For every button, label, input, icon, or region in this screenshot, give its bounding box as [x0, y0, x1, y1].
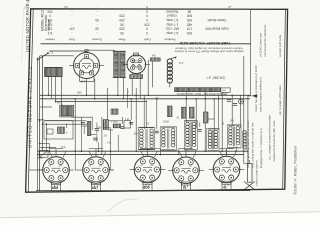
wire bus B+	[40, 98, 250, 100]
capacitor C8	[227, 100, 237, 106]
svg-text:0: 0	[49, 14, 51, 18]
capacitor C5b	[93, 138, 97, 140]
svg-text:.5 M.: .5 M.	[107, 143, 112, 145]
tube V1 inner circle	[79, 58, 94, 73]
wire left vertical 1	[39, 56, 41, 191]
svg-text:-: -	[71, 22, 72, 26]
svg-text:6.3: 6.3	[48, 22, 53, 26]
junction dots	[39, 95, 245, 153]
wire antenna taps	[49, 77, 62, 106]
capacitor C14	[120, 127, 124, 129]
wire control box feed	[37, 119, 44, 121]
resistor R8	[167, 106, 172, 117]
svg-text:250: 250	[144, 22, 150, 26]
tube V5 6D6	[130, 156, 166, 186]
svg-text:247: 247	[69, 27, 75, 31]
svg-text:0: 0	[146, 9, 148, 13]
svg-text:-: -	[71, 9, 72, 13]
svg-text:75: 75	[183, 186, 187, 190]
svg-text:OZ4: OZ4	[132, 60, 137, 63]
svg-text:-: -	[96, 22, 97, 26]
voltage divider R2	[175, 88, 221, 92]
svg-text:Cath.: Cath.	[143, 38, 151, 42]
svg-text:250: 250	[119, 27, 125, 31]
svg-text:6D6: 6D6	[52, 186, 58, 190]
svg-text:-: -	[96, 9, 97, 13]
svg-text:UNITED MOTOR PAGE 4-7: UNITED MOTOR PAGE 4-7	[25, 0, 30, 52]
page border frame	[26, 9, 288, 192]
table top sparse row (upside-down)	[64, 5, 232, 9]
svg-text:6.3: 6.3	[48, 18, 53, 22]
svg-text:Output: Output	[167, 14, 177, 18]
svg-text:6A7: 6A7	[92, 186, 98, 190]
svg-text:250: 250	[119, 18, 125, 22]
svg-text:-: -	[71, 14, 72, 18]
extra junction dots	[39, 95, 237, 156]
wire seg y158 a	[37, 157, 42, 159]
svg-text:-: -	[96, 31, 97, 35]
svg-text:0: 0	[146, 27, 148, 31]
IF transformer T3	[161, 127, 175, 149]
resistor R10	[189, 107, 194, 118]
svg-text:Position: Position	[164, 38, 175, 42]
svg-text:pin to plate of 84 tube: pin to plate of 84 tube	[278, 85, 282, 115]
svg-text:ANT.: ANT.	[57, 101, 63, 105]
IF transformer T2 can	[138, 127, 155, 150]
antenna coil L1	[45, 67, 63, 76]
svg-text:-: -	[121, 9, 122, 13]
svg-text:175: 175	[187, 27, 193, 31]
svg-text:Plate: Plate	[118, 38, 125, 42]
tube V4 6A7	[78, 157, 114, 187]
svg-text:1 MEG: 1 MEG	[111, 122, 118, 124]
wire between tubes d	[111, 169, 114, 171]
svg-text:.006: .006	[230, 121, 235, 123]
svg-text:250M: 250M	[208, 119, 214, 121]
IF transformer T3 can	[160, 127, 176, 150]
wire left inner vertical	[36, 57, 38, 191]
svg-text:6-7 amp.: 6-7 amp.	[166, 31, 179, 35]
resistor R5	[87, 121, 90, 135]
svg-text:240: 240	[47, 9, 53, 13]
svg-text:90: 90	[120, 22, 124, 26]
svg-text:90: 90	[95, 18, 99, 22]
svg-text:100M: 100M	[163, 122, 169, 124]
wire top grid lead	[49, 50, 87, 52]
diagonal grid leads bottom tubes	[49, 151, 237, 158]
svg-text:©John F. Rider, Publisher: ©John F. Rider, Publisher	[292, 145, 297, 194]
svg-text:50M: 50M	[77, 92, 82, 95]
wire left feed	[40, 55, 74, 57]
tube V1 6A7	[69, 53, 104, 79]
oscillator coil L3	[167, 57, 176, 88]
wire tube1 cap to IF	[87, 49, 115, 51]
wire left vertical 2	[42, 56, 44, 151]
svg-text:Receiver: Receiver	[165, 9, 179, 13]
svg-text:Heater: Heater	[45, 38, 54, 42]
audio transformer T4	[185, 121, 196, 150]
svg-text:-: -	[71, 31, 72, 35]
wire verticals left-mid	[46, 88, 236, 155]
control box	[44, 121, 73, 140]
vibrator/fuse F1	[244, 160, 255, 190]
resistor R11	[203, 112, 208, 123]
wire seg y147 a	[40, 147, 56, 149]
tube V7 41	[209, 156, 245, 186]
arrow at divider tap	[251, 94, 257, 97]
wire bars over tubes	[49, 148, 234, 150]
resistor R7a	[111, 109, 118, 114]
voltage table rows (upside-down)	[47, 9, 228, 35]
wire between tubes b	[110, 151, 112, 170]
svg-text:I.S.: I.S.	[50, 51, 54, 55]
svg-text:-: -	[97, 5, 98, 9]
page edge (scan) bottom	[0, 212, 320, 226]
svg-text:TAP: TAP	[222, 89, 227, 92]
output transformer T6	[228, 125, 239, 147]
table header row (upside-down)	[45, 38, 230, 46]
resistor R9	[181, 107, 186, 118]
svg-text:Series Model: Series Model	[207, 18, 226, 22]
svg-text:98: 98	[188, 9, 192, 13]
resistor R6	[103, 120, 108, 130]
capacitor C10	[81, 123, 85, 125]
border inner line left	[28, 9, 33, 192]
wire verticals center	[75, 56, 248, 164]
svg-text:0: 0	[146, 14, 148, 18]
svg-text:readings taken with Weston Mod: readings taken with Weston Model 772 met…	[174, 50, 244, 54]
tube V2 OZ4	[123, 55, 151, 74]
tube V6 75	[168, 157, 204, 187]
svg-text:Screen: Screen	[92, 38, 102, 42]
tube V3 6D6	[38, 157, 74, 187]
capacitor C12	[155, 131, 159, 133]
wire bus AVC	[40, 94, 250, 96]
svg-text:-: -	[189, 5, 190, 9]
coil L2 RF	[60, 105, 74, 117]
wire osc lead a	[45, 120, 87, 122]
component below V2	[130, 75, 143, 79]
svg-text:6A7- Osc.: 6A7- Osc.	[165, 27, 179, 31]
svg-text:6 V.: 6 V.	[179, 61, 184, 65]
wire bus lower 2	[38, 154, 245, 156]
table rule	[41, 43, 252, 45]
svg-text:400: 400	[152, 55, 157, 58]
svg-text:I.F. 262 KC.: I.F. 262 KC.	[207, 76, 227, 80]
svg-text:10,300– 3250– 1050– VOLTAGE DI: 10,300– 3250– 1050– VOLTAGE DIVIDER	[177, 92, 228, 96]
wire bus lower 1	[38, 150, 249, 152]
svg-text:-: -	[96, 14, 97, 18]
wire IFT1 second lead	[145, 100, 147, 128]
svg-text:485: 485	[187, 22, 193, 26]
tube V1 base bracket	[80, 76, 95, 82]
speaker field coil L5	[243, 131, 247, 150]
svg-text:600: 600	[187, 14, 193, 18]
page corner edge top-left	[24, 0, 30, 10]
wire bottom bus	[36, 190, 250, 192]
IF transformer T1	[113, 51, 126, 77]
svg-text:Grid: Grid	[69, 38, 75, 42]
svg-text:41: 41	[223, 186, 227, 190]
border inner line right	[283, 9, 286, 189]
svg-text:6-7 amp.: 6-7 amp.	[166, 18, 179, 22]
svg-text:VOL.: VOL.	[61, 146, 67, 149]
svg-text:25M: 25M	[97, 128, 102, 130]
capacitor C5	[95, 123, 100, 143]
svg-text:250: 250	[119, 14, 125, 18]
wire between tubes c	[75, 169, 78, 171]
svg-text:socket with tube: socket with tube	[278, 35, 282, 57]
wire table edge / right riser	[250, 9, 252, 96]
svg-text:6A7: 6A7	[81, 80, 86, 84]
svg-text:of 1000 ohms per: of 1000 ohms per	[259, 33, 263, 57]
capacitor C11	[129, 122, 133, 124]
wire osc lead b	[45, 123, 89, 125]
wire seg y107 left	[40, 106, 52, 108]
svg-text:-: -	[71, 18, 72, 22]
svg-text:UNITED MOTORS SERVICE: UNITED MOTORS SERVICE	[27, 65, 32, 148]
svg-text:505: 505	[187, 31, 193, 35]
faint scan smudge	[108, 199, 138, 212]
wire tube drops to bottom bus	[52, 149, 232, 191]
IF transformer T5	[208, 129, 218, 151]
svg-text:90: 90	[120, 31, 124, 35]
resistor R1	[150, 58, 160, 61]
output transformer T6 can	[227, 125, 241, 148]
tube pin voltage marks	[49, 165, 234, 178]
svg-text:volt should be obtained.: volt should be obtained.	[263, 24, 267, 57]
svg-text:meter having a resistance of 1: meter having a resistance of 1000	[254, 65, 258, 112]
wire bus mid	[55, 101, 147, 103]
svg-text:measured should be 420 volts.: measured should be 420 volts.	[272, 120, 276, 162]
IF transformer T5 can	[207, 128, 219, 151]
svg-text:1-7 amp.: 1-7 amp.	[166, 22, 179, 26]
audio transformer T4 can	[185, 120, 198, 150]
svg-text:0: 0	[146, 31, 148, 35]
table upper rule	[41, 8, 251, 10]
svg-text:04: 04	[64, 5, 68, 9]
svg-text:6D6: 6D6	[144, 186, 150, 190]
svg-text:2 M.: 2 M.	[125, 119, 130, 121]
svg-text:6.3: 6.3	[48, 27, 53, 31]
svg-text:+0: +0	[228, 5, 232, 9]
IF transformer T2	[139, 128, 153, 149]
tube V2 top cap box	[133, 53, 138, 56]
svg-text:Dash Model 600: Dash Model 600	[205, 27, 228, 31]
svg-text:500: 500	[187, 18, 193, 22]
jack J1	[239, 99, 244, 104]
svg-text:0: 0	[146, 18, 148, 22]
capacitor box C7c	[124, 121, 131, 129]
svg-text:90: 90	[95, 27, 99, 31]
svg-text:ohms noted above.: ohms noted above.	[254, 160, 258, 186]
wire V3 left feed	[29, 169, 43, 171]
tuning condenser left	[39, 150, 48, 157]
svg-text:and the largest deflection: and the largest deflection	[259, 77, 263, 112]
capacitor C13	[198, 130, 202, 132]
svg-text:-: -	[122, 5, 123, 9]
wire horizontals mid	[40, 117, 250, 163]
resistor R7b	[113, 124, 120, 128]
svg-text:10M: 10M	[134, 134, 139, 136]
switch S1	[37, 51, 54, 61]
wire between tubes a	[74, 151, 76, 170]
svg-text:TUBE SOCKET VOLTAGE DATA: TUBE SOCKET VOLTAGE DATA	[179, 41, 231, 45]
svg-text:6.3: 6.3	[48, 31, 53, 35]
svg-text:Engage Drop--? express at 6: Engage Drop--? express at 6	[259, 128, 263, 168]
tap box	[221, 88, 230, 92]
grid cap tube V1	[85, 50, 88, 52]
